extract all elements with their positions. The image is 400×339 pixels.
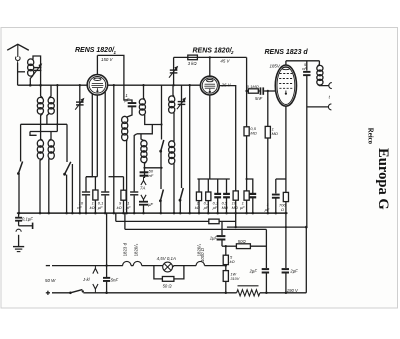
svg-text:1W: 1W: [230, 272, 236, 276]
switch S4: [160, 190, 163, 201]
trimmer capacitor C3: [178, 101, 186, 102]
antenna plug hook: [16, 57, 21, 61]
svg-text:MΩ: MΩ: [272, 131, 278, 136]
junction on mains: [265, 292, 268, 295]
tube V2 envelope: [200, 76, 219, 95]
wire rail B left jog: [30, 132, 37, 136]
wire S4 to bus: [160, 201, 162, 213]
junction on mains: [225, 292, 228, 295]
junction on bus: [85, 212, 88, 215]
svg-text:MΩ: MΩ: [222, 205, 228, 210]
coil L1 antenna: [28, 59, 34, 66]
trimmer capacitor C1: [34, 67, 42, 68]
resistor 0.1M: [248, 89, 258, 93]
antenna: [7, 44, 29, 50]
svg-text:nF: nF: [302, 66, 307, 71]
tube V3 envelope: [275, 65, 296, 106]
wire hang 226: [226, 179, 228, 193]
node L1 bottom: [29, 84, 32, 87]
wire 1ue bus: [133, 196, 135, 214]
wire mains bottom3: [260, 292, 306, 294]
wire tap to L7: [144, 85, 145, 99]
wire divider col: [225, 246, 227, 255]
junction on bus: [65, 212, 68, 215]
junction on bus: [79, 212, 82, 215]
resistor 1k b: [93, 190, 98, 200]
capacitor 1uF osc: [139, 201, 148, 203]
wire anode rail: [97, 55, 132, 102]
wire S3 down: [160, 151, 162, 189]
capacitor 1uF k: [272, 194, 280, 196]
jack: [16, 229, 21, 232]
wire cross tie: [145, 167, 162, 169]
wire 199 bus: [198, 201, 200, 214]
capacitor 50nF: [140, 171, 149, 173]
svg-text:26 V: 26 V: [221, 82, 232, 87]
wire L8 bottom: [145, 162, 147, 178]
junction on bus: [225, 212, 228, 215]
node rail x113: [113, 84, 115, 86]
wire grid line: [247, 90, 249, 92]
wire 1M bus: [267, 138, 269, 213]
resistor 700: [283, 192, 288, 201]
junction on bus: [122, 212, 125, 215]
wire divider col2: [225, 265, 227, 271]
wire L7 jog: [145, 115, 162, 125]
terminal T1: [329, 83, 332, 89]
wire top rail: [173, 57, 175, 85]
wire to bus 235: [235, 200, 237, 213]
capacitor 5nF out: [303, 71, 310, 73]
terminal T2: [328, 104, 331, 110]
svg-text:MΩ: MΩ: [250, 131, 256, 136]
wire V1 cathode b: [96, 95, 98, 177]
shunt loop left: [154, 266, 163, 279]
junction on bus: [18, 212, 21, 215]
node lineC mid: [235, 226, 237, 228]
junction on bus: [245, 212, 248, 215]
fuse 7A arrows: [141, 181, 146, 186]
wire cap 253: [247, 179, 253, 193]
svg-text:µF: µF: [98, 205, 103, 210]
svg-text:50 Ω: 50 Ω: [163, 284, 173, 289]
svg-text:0,1MΩ: 0,1MΩ: [247, 84, 259, 89]
node mains: [105, 264, 107, 266]
svg-text:kΩ: kΩ: [195, 205, 200, 210]
wire gnd stub: [18, 221, 20, 225]
trimmer capacitor C2: [76, 101, 84, 102]
tube V2 cathode: [209, 89, 211, 91]
svg-text:µF: µF: [240, 205, 245, 210]
wire main rail mid: [108, 84, 201, 86]
wire line D: [125, 228, 267, 230]
wire tap down x57: [56, 85, 58, 124]
wire 217 bus: [217, 198, 219, 213]
svg-text:7A: 7A: [140, 186, 145, 191]
wire 253 bus: [252, 198, 254, 213]
svg-text:Europa G: Europa G: [375, 148, 391, 210]
wire to L8: [141, 134, 144, 141]
wire 5nF col down: [306, 76, 308, 227]
svg-text:50 W: 50 W: [45, 278, 56, 283]
wire mains mid: [131, 265, 133, 267]
junction on bus: [39, 212, 42, 215]
svg-text:µF: µF: [124, 98, 129, 103]
wire hang 275: [275, 179, 277, 193]
coil L11 output: [317, 65, 323, 71]
terminal stub: [19, 225, 33, 227]
wire cap col2: [221, 240, 223, 246]
wire 5nF col top: [306, 61, 308, 71]
junction on bus: [48, 212, 51, 215]
svg-text:µF: µF: [213, 205, 218, 210]
svg-text:µF: µF: [126, 205, 131, 210]
wire 208 bus: [207, 201, 209, 214]
wire 1M col: [267, 91, 269, 126]
resistor 50ohm: [236, 244, 250, 249]
wire L9 down: [173, 113, 175, 142]
resistor 5k: [223, 255, 228, 264]
svg-text:2µF: 2µF: [289, 269, 298, 274]
wire L4 bottom to bus: [40, 159, 43, 214]
junction on bus: [133, 212, 136, 215]
resistor zigzag: [237, 290, 260, 296]
coil L8: [141, 140, 147, 147]
node rail x173: [172, 84, 174, 86]
node power end: [225, 264, 227, 266]
wire out coil top: [318, 61, 320, 66]
junction on bus: [104, 212, 107, 215]
wire antenna tap: [18, 71, 25, 73]
label minus: [46, 265, 50, 267]
resistor 0.5M b: [244, 127, 249, 136]
wire 9k bus: [123, 200, 125, 213]
junction on mains: [105, 292, 108, 295]
wire 2uF2 col2: [285, 273, 287, 292]
tube V3 grids: [279, 74, 292, 89]
tube V2 grid marks: [205, 83, 215, 85]
junction on bus: [160, 212, 163, 215]
wire drop D: [124, 213, 126, 229]
svg-text:2µF: 2µF: [249, 269, 258, 274]
svg-text:nF: nF: [77, 205, 82, 210]
tube V1 grid marks: [92, 82, 103, 84]
shunt loop right: [174, 266, 184, 279]
wire 2uF1 col2: [265, 273, 267, 292]
junction on bus: [252, 212, 255, 215]
wire tap to L2: [41, 85, 43, 98]
wire 10nF bus: [85, 196, 87, 214]
wire L5 bottom to bus: [48, 159, 50, 214]
wire mains lamp right: [173, 266, 197, 267]
tube V1 envelope: [87, 75, 107, 95]
resistor 3k: [188, 55, 198, 60]
tube V3 cathode: [285, 91, 287, 93]
capacitor 1uF e: [130, 191, 138, 192]
wire 700 bus: [285, 202, 287, 214]
capacitor 5nF mains: [103, 277, 110, 279]
heater winding 1820/1: [196, 261, 204, 265]
wire screen col2: [246, 136, 248, 191]
wire gnd leg: [18, 240, 20, 246]
wire grp1 hang1: [85, 177, 87, 192]
node osc tie b: [160, 167, 162, 169]
capacitor 1uF p: [217, 235, 226, 237]
zigzag bar: [238, 285, 259, 287]
node power x106: [105, 292, 107, 294]
coil L5: [48, 140, 54, 147]
wire jog2: [137, 125, 153, 134]
capacitor 1uF c: [249, 193, 256, 195]
coil L4: [37, 140, 43, 147]
wire rail H: [276, 178, 286, 180]
junction on bus: [198, 212, 201, 215]
node grid3: [267, 90, 269, 92]
wire rail B: [30, 131, 57, 133]
wire line A: [116, 220, 209, 222]
svg-text:190 V: 190 V: [287, 288, 299, 293]
svg-text:RENS 1820/: RENS 1820/: [193, 48, 233, 55]
wire bus to mains: [106, 213, 108, 277]
resistor 1M: [265, 126, 270, 138]
svg-text:kΩ: kΩ: [117, 205, 122, 210]
spark gap bottom: [93, 284, 98, 289]
svg-text:3 kΩ: 3 kΩ: [188, 61, 198, 66]
svg-text:µF: µF: [148, 202, 153, 207]
svg-text:RENS 1823 d: RENS 1823 d: [265, 49, 309, 56]
wire anode rail V3: [286, 60, 320, 62]
node rail x57: [56, 84, 58, 86]
wire rail A: [21, 123, 67, 125]
wire right column: [305, 227, 307, 293]
junction on bus: [125, 212, 128, 215]
wire L1 top loop: [33, 56, 41, 85]
wire hang 208: [207, 179, 209, 192]
capacitor 10nF: [82, 191, 90, 192]
svg-text:45 V: 45 V: [220, 58, 230, 63]
wire V2 plate right: [219, 86, 236, 191]
svg-text:nF: nF: [149, 173, 154, 178]
wire L6 to bus: [126, 140, 128, 213]
wire 246 bus: [246, 200, 248, 213]
resistor 1W: [223, 271, 228, 282]
coil L9: [169, 96, 175, 103]
coil L10: [169, 141, 175, 148]
capacitor 0.1uF f: [101, 191, 109, 192]
capacitor 2uF2: [282, 268, 289, 270]
wire V1 cathode a: [86, 94, 92, 177]
svg-text:µF: µF: [265, 207, 270, 212]
junction on bus: [285, 212, 288, 215]
resistor 1k: [196, 192, 201, 201]
wire drop A: [115, 213, 117, 221]
node rail x79: [79, 84, 81, 86]
tube V2 anode: [207, 80, 214, 82]
wire 2uF1 col: [265, 229, 267, 268]
switch S2: [65, 162, 71, 174]
wire aux to bus: [71, 164, 73, 213]
capacitor 0.1uF a: [214, 193, 221, 195]
svg-text:RENS 1820/: RENS 1820/: [75, 47, 115, 54]
wire S5 to bus: [179, 200, 181, 213]
svg-text:150 V: 150 V: [101, 57, 114, 62]
heater winding 1820/2: [133, 261, 141, 265]
trimmer capacitor C4: [170, 69, 178, 70]
resistor 0.1: [206, 192, 211, 201]
wire rail link: [56, 124, 58, 131]
resistor 0.5M a: [233, 191, 238, 200]
wire S2 to bus: [66, 175, 68, 214]
junction on bus: [188, 212, 191, 215]
capacitor 0.1uF b: [223, 193, 230, 195]
wire rail2: [109, 176, 124, 178]
wire tap to L9: [173, 85, 174, 96]
ground: [13, 246, 24, 248]
wire V2 cathode down: [209, 95, 211, 179]
junction on bus: [173, 212, 176, 215]
wire rail B to L4: [41, 132, 43, 141]
node lineC right: [305, 226, 308, 229]
wire antenna feed down: [17, 63, 19, 85]
wire screen col: [246, 57, 248, 126]
svg-text:4,5V 0,1A: 4,5V 0,1A: [157, 256, 176, 261]
wire grp2 hang: [123, 177, 125, 191]
switch S5: [180, 188, 183, 200]
junction on bus: [267, 212, 270, 215]
wire to L6: [127, 107, 132, 117]
wire mains top: [52, 265, 123, 267]
resistor 50 shunt: [162, 277, 174, 282]
wire x114 to bus: [113, 85, 115, 213]
wire tap to L3: [49, 85, 51, 98]
junction on bus: [207, 212, 210, 215]
wire switch col top: [161, 85, 163, 139]
capacitor 2uF1: [262, 268, 269, 270]
junction on bus: [179, 212, 182, 215]
junction on bus: [216, 212, 219, 215]
svg-text:310V: 310V: [230, 277, 239, 281]
svg-text:0,1µF: 0,1µF: [22, 216, 33, 221]
junction on bus: [234, 212, 237, 215]
wire mains bottom1: [52, 292, 70, 294]
svg-text:Ω: Ω: [281, 207, 284, 212]
capacitor 0.1uF gnd: [18, 213, 20, 217]
wire mains right: [205, 265, 226, 267]
wire cap col: [221, 221, 223, 235]
tube V1 anode: [94, 78, 101, 80]
tube V3 anode: [282, 67, 289, 69]
node rail x143: [142, 84, 144, 86]
wire L10 to bus: [173, 164, 175, 214]
fuse 7A lower arrow: [141, 195, 146, 200]
svg-text:kΩ: kΩ: [230, 259, 235, 264]
node grid2: [245, 90, 247, 92]
switch S3: [161, 140, 164, 151]
heater winding 1823d: [123, 261, 131, 265]
tube V1 cathode: [96, 88, 98, 90]
junction on bus: [142, 212, 145, 215]
junction on bus: [71, 212, 74, 215]
capacitor 5nF grid: [260, 87, 262, 94]
wire divider col3: [225, 281, 227, 292]
wire S1 to bus: [18, 174, 20, 214]
node osc tie a: [160, 123, 162, 125]
bus chassis: [17, 212, 288, 214]
wire grp1 rail: [86, 176, 97, 178]
wire rail B to L5: [49, 132, 51, 141]
wire T2: [307, 106, 329, 108]
resistor 9k: [121, 190, 126, 200]
node V2 top: [209, 56, 211, 58]
junction on mains: [285, 292, 288, 295]
wire mains cap down: [106, 282, 108, 293]
svg-text:kΩ: kΩ: [90, 205, 95, 210]
wire V1 anode up: [96, 55, 98, 74]
node L1 right: [39, 84, 42, 87]
wire V3 cathode down: [285, 106, 287, 192]
coil L2 primary: [37, 97, 43, 103]
wire out coil bottom: [318, 85, 329, 86]
label plus: [46, 292, 50, 294]
svg-text:1820/₂: 1820/₂: [134, 243, 139, 256]
wire hang 199: [198, 179, 200, 192]
wire grid line2: [258, 90, 259, 92]
svg-text:5nF: 5nF: [255, 96, 263, 101]
capacitor 1uF anode: [128, 102, 137, 104]
svg-text:Reico: Reico: [366, 128, 373, 145]
wire 0.1f bus: [104, 196, 106, 214]
switch S1: [18, 162, 22, 174]
svg-text:1µF: 1µF: [210, 235, 218, 240]
wire line C: [227, 226, 306, 228]
coil L7: [139, 99, 145, 105]
node rail x189: [189, 84, 191, 86]
coil L3 secondary: [48, 97, 54, 103]
wire L1 bottom: [30, 76, 33, 86]
wire x190 to bus: [189, 85, 191, 213]
coil L6: [122, 116, 128, 123]
wire hang 217: [217, 179, 219, 193]
wire trimmer column: [79, 85, 81, 213]
svg-text:J·kl: J·kl: [82, 277, 91, 282]
wire line A2: [219, 220, 236, 222]
wire 50ohm line: [222, 245, 236, 247]
wire 226 bus: [226, 198, 228, 213]
junction on bus: [275, 212, 278, 215]
resistor 10M: [244, 191, 249, 200]
svg-text:185V: 185V: [270, 64, 281, 69]
svg-text:MΩ: MΩ: [232, 205, 238, 210]
wire rail A left down: [20, 124, 22, 161]
wire rail A right down: [66, 124, 68, 162]
wire grp1 hang2: [94, 177, 96, 190]
node railA x57: [56, 123, 58, 125]
svg-text:µF: µF: [204, 205, 209, 210]
wire cap 105 col: [104, 92, 106, 191]
wire drop C: [235, 213, 237, 227]
junction on bus: [94, 212, 97, 215]
wire mains bottom2: [83, 292, 236, 294]
spark gap top: [93, 268, 98, 273]
svg-text:2: 2: [230, 50, 234, 55]
wire L2 bottom to rail B: [41, 114, 43, 132]
wire 2uF2 col: [285, 213, 287, 268]
junction on bus: [113, 212, 116, 215]
node divider: [225, 245, 227, 247]
svg-text:5nF: 5nF: [111, 278, 119, 283]
resistor lineA: [209, 219, 219, 224]
wire 275 bus: [275, 198, 277, 213]
